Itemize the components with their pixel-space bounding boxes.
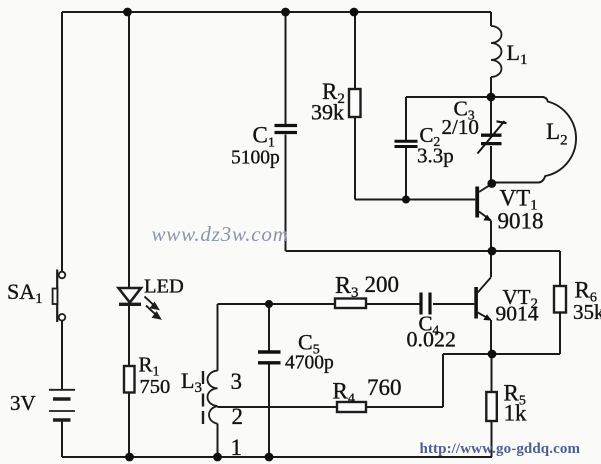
- svg-text:L1: L1: [507, 40, 528, 68]
- svg-text:C1: C1: [253, 123, 275, 151]
- svg-text:2: 2: [232, 404, 244, 429]
- svg-text:http://www.go-gddq.com: http://www.go-gddq.com: [420, 441, 581, 457]
- svg-text:1: 1: [231, 435, 243, 460]
- svg-text:L2: L2: [546, 119, 568, 149]
- svg-text:www.dz3w.com: www.dz3w.com: [152, 222, 289, 246]
- svg-text:760: 760: [367, 375, 402, 400]
- svg-text:750: 750: [140, 376, 171, 398]
- svg-text:3V: 3V: [10, 391, 36, 415]
- svg-text:9014: 9014: [496, 302, 539, 326]
- svg-text:39k: 39k: [311, 100, 344, 125]
- svg-text:SA1: SA1: [7, 279, 43, 307]
- svg-text:2/10: 2/10: [442, 115, 479, 139]
- svg-text:3: 3: [231, 369, 243, 394]
- svg-text:4700p: 4700p: [285, 353, 334, 374]
- svg-text:LED: LED: [144, 276, 184, 298]
- svg-text:35k: 35k: [573, 300, 601, 324]
- svg-text:R3: R3: [335, 273, 359, 301]
- svg-text:R4: R4: [333, 379, 355, 407]
- svg-text:5100p: 5100p: [231, 148, 280, 169]
- svg-text:3.3p: 3.3p: [417, 144, 454, 168]
- svg-text:9018: 9018: [498, 209, 544, 234]
- svg-text:200: 200: [365, 272, 400, 297]
- svg-text:0.022: 0.022: [407, 327, 457, 352]
- svg-text:L3: L3: [181, 368, 202, 396]
- svg-text:1k: 1k: [504, 401, 528, 426]
